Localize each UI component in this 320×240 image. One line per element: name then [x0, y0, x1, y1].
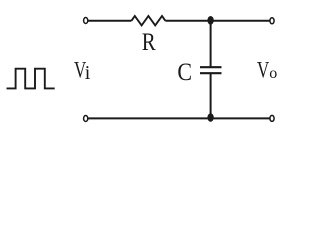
resistor R1	[131, 16, 165, 25]
wire top-right	[165, 20, 269, 22]
square-wave input symbol	[7, 69, 55, 89]
wire capacitor bottom lead	[210, 73, 212, 118]
terminal Vi- (bottom-left)	[84, 116, 88, 122]
capacitor C1	[200, 67, 222, 73]
svg-text:i: i	[85, 62, 91, 84]
wire top-left	[88, 20, 131, 22]
svg-text:R: R	[142, 28, 156, 56]
terminal Vo+ (top-right)	[270, 18, 274, 24]
wire capacitor top lead	[210, 21, 212, 67]
svg-text:V: V	[257, 58, 269, 83]
terminal Vi+ (top-left)	[84, 18, 88, 24]
node top junction	[207, 16, 213, 25]
wire bottom	[88, 117, 270, 119]
terminal Vo- (bottom-right)	[270, 115, 274, 121]
node bottom junction	[207, 113, 213, 122]
svg-text:C: C	[177, 58, 192, 86]
svg-text:o: o	[269, 65, 277, 82]
